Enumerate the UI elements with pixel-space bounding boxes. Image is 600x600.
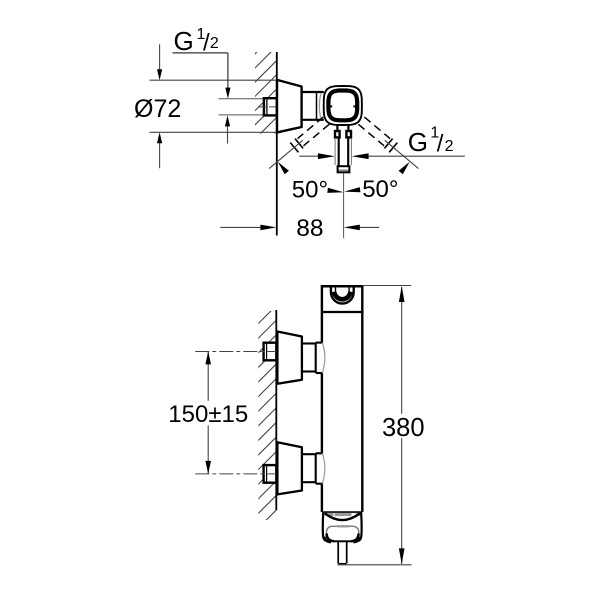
G1/2 leader line (173, 52, 228, 54)
dimension 88 (220, 226, 261, 228)
handle tick marks (330, 105, 333, 107)
wall line (top view) (276, 52, 278, 236)
dimension 380 extension lines (363, 285, 412, 287)
svg-text:Ø72: Ø72 (134, 95, 181, 123)
upper union cylinder (302, 342, 316, 344)
outlet housing top line (323, 511, 362, 513)
swivel centerline (right) (385, 140, 419, 168)
upper union union nut (316, 343, 325, 373)
outlet tip (338, 166, 350, 172)
outlet sides (323, 512, 329, 541)
valve body (top view) (302, 91, 324, 93)
hook detail at body top (331, 286, 354, 304)
svg-text:150±15: 150±15 (168, 401, 248, 428)
swivel outline dashed (left 50&#176;) (298, 117, 324, 139)
mixer body (front view) (322, 285, 362, 288)
lower union centerline / 150-dim extension (195, 473, 280, 475)
lower union union nut (316, 453, 325, 483)
shower outlet neck (336, 125, 338, 132)
upper union centerline / 150-dim extension (195, 351, 280, 353)
lever handle (top view) (324, 86, 362, 125)
upper union wall pipe (264, 343, 277, 361)
svg-text:/: / (437, 130, 444, 157)
swivel union nut ticks (left) (295, 139, 303, 149)
outlet G1/2 leader line (299, 155, 320, 157)
angle arrows 50 deg (278, 162, 289, 175)
inlet pipe through wall (top view) (264, 98, 277, 115)
outlet shading (325, 513, 333, 516)
label G 1/2 (inlet, top-left) (174, 26, 219, 56)
swivel centerline (left) (269, 140, 303, 168)
swivel outline dashed (right 50&#176;) (364, 117, 390, 139)
outlet centerline (343, 173, 345, 238)
svg-text:2: 2 (445, 138, 454, 155)
svg-text:50°: 50° (292, 177, 328, 204)
svg-text:380: 380 (382, 414, 425, 442)
svg-text:50°: 50° (362, 176, 398, 203)
aerator block (327, 526, 359, 541)
handle silhouette arc (319, 94, 321, 119)
dimension 150±15 (207, 352, 209, 401)
outlet union nut tabs (335, 131, 340, 137)
inlet pipe dim arrow (bottom) (227, 126, 229, 144)
Ø72 arrows (159, 44, 161, 70)
label G 1/2 (outlet, right) (408, 125, 454, 158)
inlet pipe extension lines (219, 98, 265, 100)
lower union wall pipe (264, 465, 277, 483)
svg-text:G: G (408, 127, 428, 157)
wall line (front view) (275, 310, 277, 510)
spout tube (337, 542, 339, 564)
svg-text:G: G (174, 26, 194, 56)
dimension 380 line (401, 287, 403, 414)
lower union cylinder (302, 453, 316, 455)
Ø72 extension lines (150, 79, 277, 81)
swivel union nut ticks (right) (385, 139, 393, 149)
lower union escutcheon (277, 442, 302, 494)
svg-text:88: 88 (296, 215, 323, 242)
inlet pipe centerline (258, 106, 279, 108)
svg-text:2: 2 (210, 35, 219, 52)
outlet chrome ring arc (325, 513, 360, 520)
escutcheon (top view) (277, 80, 302, 132)
outlet tube (338, 138, 340, 167)
upper union escutcheon (277, 332, 302, 384)
